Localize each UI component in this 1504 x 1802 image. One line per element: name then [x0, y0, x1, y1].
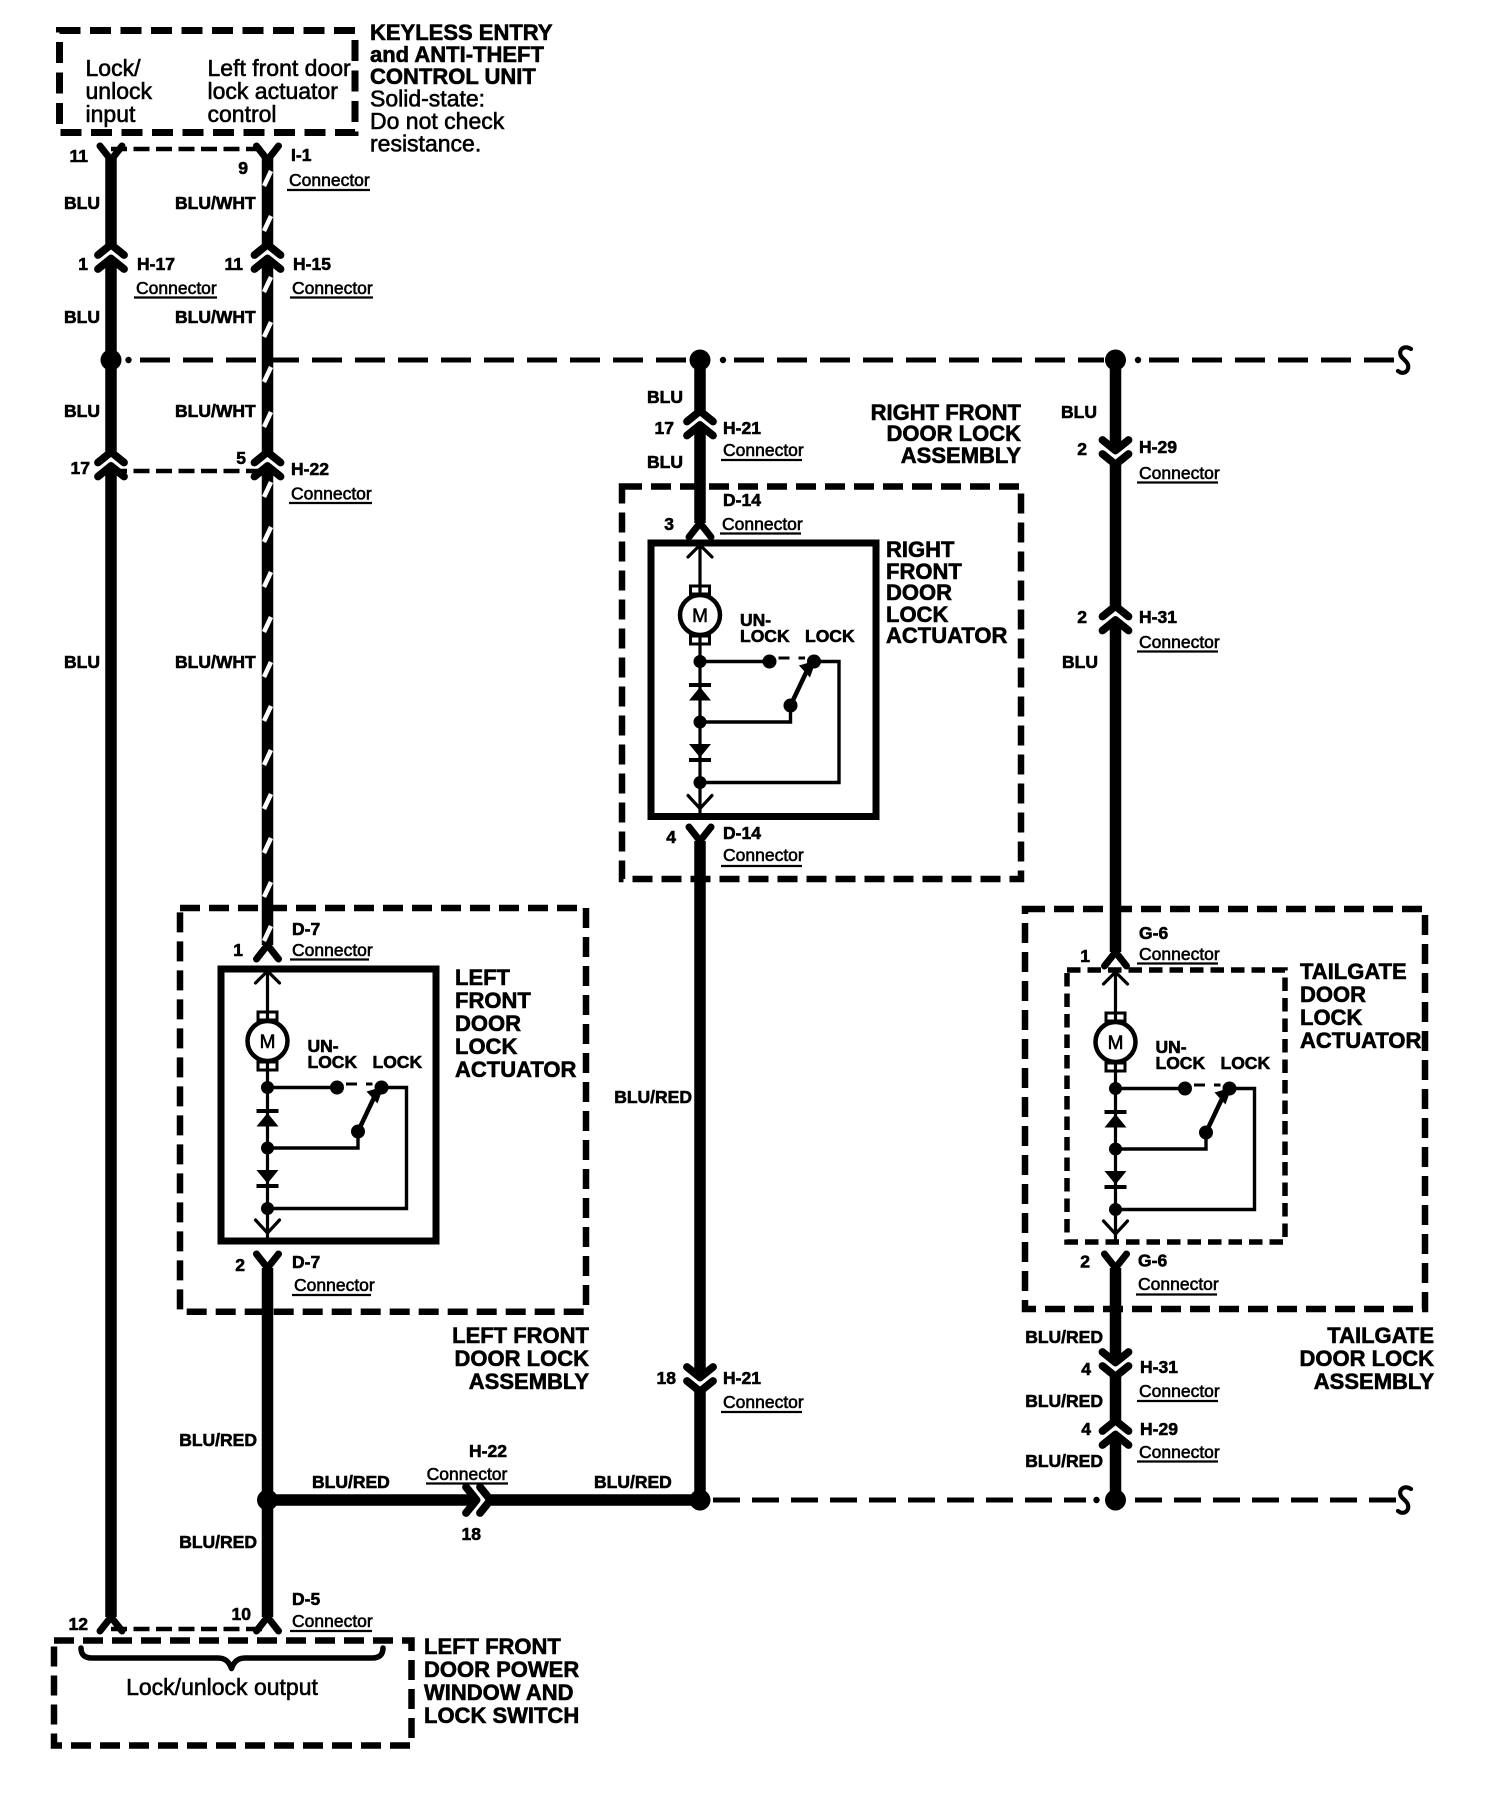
svg-text:Connector: Connector — [723, 440, 804, 460]
LF actuator motor M — [248, 1021, 288, 1061]
connector H-15 — [261, 249, 274, 261]
RF actuator lock-side wire to corner — [700, 662, 839, 783]
svg-text:Connector: Connector — [292, 940, 373, 960]
bottom bus junction at W4 — [1105, 1490, 1126, 1511]
connector G-6 bottom fork — [1105, 1254, 1127, 1268]
svg-text:Connector: Connector — [1138, 1274, 1219, 1294]
svg-text:FRONT: FRONT — [455, 988, 531, 1013]
svg-text:LEFT FRONT: LEFT FRONT — [452, 1323, 589, 1348]
svg-text:DOOR POWER: DOOR POWER — [424, 1657, 579, 1682]
svg-text:17: 17 — [71, 458, 90, 478]
svg-text:BLU: BLU — [647, 452, 683, 472]
svg-text:5: 5 — [236, 448, 246, 468]
svg-text:11: 11 — [225, 254, 244, 274]
wire W1 BLU — [105, 158, 117, 1617]
svg-text:D-7: D-7 — [292, 919, 320, 939]
svg-text:LOCK: LOCK — [1156, 1053, 1206, 1073]
LF actuator switch travel dashes — [346, 1083, 373, 1086]
svg-text:BLU: BLU — [64, 193, 100, 213]
svg-text:BLU: BLU — [1062, 652, 1098, 672]
svg-text:M: M — [692, 606, 708, 627]
LF actuator LOCK contact — [375, 1081, 389, 1095]
svg-text:H-31: H-31 — [1140, 1357, 1178, 1377]
svg-text:H-22: H-22 — [469, 1441, 507, 1461]
svg-text:BLU/RED: BLU/RED — [179, 1430, 257, 1450]
top bus junction at W4 — [1105, 350, 1126, 371]
svg-text:2: 2 — [1077, 607, 1087, 627]
RF actuator bottom junction — [694, 776, 707, 789]
svg-text:H-22: H-22 — [291, 459, 329, 479]
svg-text:2: 2 — [1080, 1252, 1090, 1272]
right front door lock actuator box — [651, 543, 876, 817]
connector G-6 top fork — [1105, 952, 1127, 966]
connector H-29 bottom — [1109, 1425, 1122, 1437]
dashed link at D-5 pins — [111, 1627, 268, 1632]
svg-text:H-17: H-17 — [137, 254, 175, 274]
svg-text:H-29: H-29 — [1140, 1419, 1178, 1439]
LF actuator junction under motor — [261, 1081, 274, 1094]
RF actuator switch travel dashes — [779, 657, 806, 660]
RF actuator pivot return wire — [700, 706, 791, 723]
LF actuator internal vertical wire — [266, 969, 269, 1241]
svg-text:BLU/WHT: BLU/WHT — [175, 401, 256, 421]
LF actuator diode D1 (pointing up) — [257, 1109, 279, 1113]
TG actuator LOCK contact — [1223, 1082, 1237, 1096]
TG actuator switch common wire — [1116, 1087, 1186, 1090]
svg-text:1: 1 — [78, 254, 88, 274]
LF actuator switch arm pivot — [351, 1125, 365, 1139]
RF actuator internal vertical wire — [698, 543, 701, 817]
svg-text:2: 2 — [235, 1255, 245, 1275]
svg-text:LOCK: LOCK — [373, 1052, 423, 1072]
svg-text:ASSEMBLY: ASSEMBLY — [1314, 1369, 1435, 1394]
RF actuator diode D2 (pointing down) — [689, 744, 711, 758]
LF actuator top arrow — [256, 971, 280, 983]
bottom horizontal wire BLU/RED — [268, 1494, 701, 1506]
svg-text:H-29: H-29 — [1139, 437, 1177, 457]
svg-text:H-31: H-31 — [1139, 607, 1177, 627]
TG actuator switch arm — [1206, 1096, 1224, 1133]
RF actuator motor M terminals — [691, 586, 710, 594]
svg-text:DOOR: DOOR — [455, 1011, 521, 1036]
svg-text:ACTUATOR: ACTUATOR — [1300, 1028, 1422, 1053]
svg-text:M: M — [1108, 1033, 1124, 1054]
dashed link at H-22 — [111, 469, 268, 474]
wire W3 upper BLU — [694, 360, 706, 523]
bottom junction at W5 — [257, 1490, 278, 1511]
svg-text:DOOR LOCK: DOOR LOCK — [1300, 1346, 1435, 1371]
svg-text:BLU: BLU — [64, 307, 100, 327]
svg-text:12: 12 — [69, 1614, 89, 1634]
TG actuator diode D2 (pointing down) — [1105, 1171, 1127, 1185]
svg-text:D-5: D-5 — [292, 1589, 320, 1609]
svg-text:G-6: G-6 — [1138, 1251, 1167, 1271]
svg-text:BLU/RED: BLU/RED — [1025, 1451, 1103, 1471]
connector D-14 top fork — [689, 523, 711, 537]
svg-text:Connector: Connector — [427, 1464, 508, 1484]
RF actuator UN-LOCK contact — [763, 655, 777, 669]
svg-text:BLU/RED: BLU/RED — [312, 1472, 390, 1492]
svg-text:M: M — [260, 1032, 276, 1053]
bottom bus junction at W3 — [690, 1490, 711, 1511]
svg-text:18: 18 — [462, 1524, 482, 1544]
svg-text:3: 3 — [664, 514, 674, 534]
connector D-14 bottom fork — [689, 827, 711, 841]
svg-text:Connector: Connector — [723, 1392, 804, 1412]
svg-text:input: input — [86, 101, 136, 127]
svg-text:Connector: Connector — [292, 1611, 373, 1631]
svg-text:LOCK: LOCK — [1300, 1005, 1362, 1030]
svg-text:BLU/WHT: BLU/WHT — [175, 193, 256, 213]
svg-text:LOCK: LOCK — [805, 626, 855, 646]
wire W4 upper BLU — [1110, 360, 1122, 952]
TG actuator pivot return wire — [1116, 1133, 1207, 1150]
svg-text:ASSEMBLY: ASSEMBLY — [469, 1369, 590, 1394]
bottom bus continuation squiggle — [1398, 1487, 1411, 1512]
svg-text:LOCK: LOCK — [740, 626, 790, 646]
connector D-7 bottom fork — [257, 1254, 279, 1268]
right front door lock assembly dashed box — [622, 487, 1021, 880]
top bus continuation squiggle — [1398, 347, 1411, 372]
bottom bus dashed wire — [713, 1498, 1086, 1503]
svg-text:BLU: BLU — [64, 401, 100, 421]
top bus junction at W1 — [101, 350, 122, 371]
RF actuator LOCK contact — [807, 655, 821, 669]
svg-text:Lock/unlock output: Lock/unlock output — [126, 1674, 318, 1700]
svg-text:TAILGATE: TAILGATE — [1327, 1323, 1434, 1348]
svg-text:Connector: Connector — [136, 278, 217, 298]
LF actuator pivot return wire — [268, 1132, 359, 1149]
lock/unlock output brace — [81, 1648, 383, 1669]
LF actuator switch common wire — [268, 1086, 338, 1089]
dashed link at unit pins — [111, 147, 268, 152]
svg-text:18: 18 — [657, 1368, 677, 1388]
svg-text:Connector: Connector — [1139, 1442, 1220, 1462]
RF actuator switch arm pivot — [784, 699, 798, 713]
svg-text:BLU/RED: BLU/RED — [1025, 1327, 1103, 1347]
svg-text:ACTUATOR: ACTUATOR — [455, 1057, 577, 1082]
connector H-21 bottom — [694, 1376, 707, 1388]
svg-text:LEFT: LEFT — [455, 965, 511, 990]
pin 9 fork I-1 — [257, 146, 279, 160]
svg-text:LOCK: LOCK — [455, 1034, 517, 1059]
LF actuator junction at return wire — [261, 1142, 274, 1155]
svg-text:Connector: Connector — [291, 484, 372, 504]
svg-text:D-7: D-7 — [292, 1252, 320, 1272]
svg-text:BLU: BLU — [1061, 402, 1097, 422]
TG actuator junction under motor — [1109, 1082, 1122, 1095]
wire W5 BLU/RED — [262, 1268, 274, 1617]
svg-text:1: 1 — [233, 940, 243, 960]
svg-text:ACTUATOR: ACTUATOR — [886, 623, 1008, 648]
connector H-22 pin 5 — [261, 456, 274, 468]
svg-text:BLU/WHT: BLU/WHT — [175, 652, 256, 672]
svg-text:H-21: H-21 — [723, 1368, 761, 1388]
RF actuator diode D1 (pointing up) — [689, 683, 711, 687]
TG actuator bottom arrow — [1104, 1221, 1128, 1234]
pin 11 fork — [100, 146, 122, 160]
left front door lock assembly dashed box — [180, 908, 586, 1312]
svg-text:D-14: D-14 — [723, 490, 761, 510]
svg-text:BLU/RED: BLU/RED — [179, 1532, 257, 1552]
svg-text:TAILGATE: TAILGATE — [1300, 959, 1407, 984]
RF actuator bottom arrow — [688, 796, 712, 809]
wire W4 lower BLU/RED — [1110, 1268, 1122, 1500]
svg-text:10: 10 — [232, 1604, 252, 1624]
svg-text:Connector: Connector — [1139, 1381, 1220, 1401]
svg-text:LOCK: LOCK — [1221, 1053, 1271, 1073]
svg-text:H-15: H-15 — [293, 254, 331, 274]
svg-text:ASSEMBLY: ASSEMBLY — [901, 443, 1022, 468]
LF actuator bottom arrow — [256, 1220, 280, 1233]
svg-text:Connector: Connector — [1139, 944, 1220, 964]
RF actuator junction under motor — [694, 655, 707, 668]
LF actuator diode D2 (pointing down) — [257, 1170, 279, 1184]
svg-text:resistance.: resistance. — [370, 131, 481, 157]
connector H-17 — [105, 249, 118, 261]
connector D-7 top fork — [257, 945, 279, 959]
svg-text:LOCK SWITCH: LOCK SWITCH — [424, 1703, 579, 1728]
TG actuator switch travel dashes — [1194, 1084, 1221, 1087]
TG actuator top arrow — [1104, 972, 1128, 984]
connector H-22 pin 17 — [105, 456, 118, 468]
wire W3 lower BLU/RED — [694, 841, 706, 1500]
TG actuator diode D1 (pointing up) — [1105, 1110, 1127, 1114]
LF actuator motor M terminals — [258, 1012, 277, 1020]
TG actuator lock-side wire to corner — [1116, 1089, 1255, 1210]
wire W2 white stripes — [264, 171, 271, 186]
svg-text:4: 4 — [666, 827, 676, 847]
left front door lock actuator box — [221, 969, 436, 1241]
svg-text:4: 4 — [1081, 1359, 1091, 1379]
svg-text:Connector: Connector — [289, 170, 370, 190]
svg-text:Connector: Connector — [1139, 463, 1220, 483]
svg-text:11: 11 — [70, 146, 89, 166]
svg-text:BLU/RED: BLU/RED — [614, 1087, 692, 1107]
svg-text:DOOR LOCK: DOOR LOCK — [455, 1346, 590, 1371]
tailgate door lock actuator dashed box — [1067, 970, 1285, 1242]
svg-text:LOCK: LOCK — [308, 1052, 358, 1072]
TG actuator bottom junction — [1109, 1203, 1122, 1216]
svg-text:2: 2 — [1077, 439, 1087, 459]
svg-text:BLU/RED: BLU/RED — [594, 1472, 672, 1492]
LF actuator UN-LOCK contact — [330, 1081, 344, 1095]
RF actuator switch common wire — [700, 660, 770, 663]
svg-text:4: 4 — [1081, 1419, 1091, 1439]
svg-text:17: 17 — [655, 418, 674, 438]
TG actuator motor M — [1096, 1022, 1136, 1062]
connector D-5 pin 10 fork — [257, 1617, 279, 1631]
svg-text:1: 1 — [1080, 946, 1090, 966]
top bus dashed wire — [125, 357, 131, 363]
svg-text:WINDOW AND: WINDOW AND — [424, 1680, 574, 1705]
keyless entry control unit box — [60, 31, 356, 133]
connector H-31 top — [1109, 610, 1122, 622]
tailgate door lock assembly dashed box — [1025, 909, 1425, 1309]
svg-text:Connector: Connector — [292, 278, 373, 298]
svg-text:DOOR: DOOR — [1300, 982, 1366, 1007]
connector D-5 pin 12 fork — [100, 1617, 122, 1631]
TG actuator junction at return wire — [1109, 1143, 1122, 1156]
wire W2 BLU/WHT — [262, 158, 274, 945]
LF actuator bottom junction — [261, 1202, 274, 1215]
left front door power window and lock switch box — [54, 1641, 412, 1746]
svg-text:BLU: BLU — [647, 387, 683, 407]
svg-text:Connector: Connector — [722, 514, 803, 534]
RF actuator top arrow — [688, 545, 712, 557]
RF actuator switch arm — [791, 669, 809, 706]
RF actuator motor M — [680, 595, 720, 635]
TG actuator internal vertical wire — [1114, 970, 1117, 1242]
connector H-31 bottom — [1109, 1361, 1122, 1373]
connector H-22 inline horizontal — [475, 1494, 487, 1507]
TG actuator UN-LOCK contact — [1178, 1082, 1192, 1096]
TG actuator switch arm pivot — [1199, 1126, 1213, 1140]
connector H-29 top — [1109, 449, 1122, 461]
svg-text:Connector: Connector — [294, 1275, 375, 1295]
svg-text:D-14: D-14 — [723, 823, 761, 843]
svg-text:BLU/WHT: BLU/WHT — [175, 307, 256, 327]
svg-text:LEFT FRONT: LEFT FRONT — [424, 1634, 561, 1659]
RF actuator junction at return wire — [694, 716, 707, 729]
svg-text:control: control — [208, 101, 277, 127]
svg-text:H-21: H-21 — [723, 418, 761, 438]
TG actuator motor M terminals — [1106, 1013, 1125, 1021]
svg-text:Connector: Connector — [723, 845, 804, 865]
LF actuator switch arm — [358, 1095, 376, 1132]
svg-text:I-1: I-1 — [291, 145, 312, 165]
top bus junction at W3 — [690, 350, 711, 371]
svg-text:Connector: Connector — [1139, 632, 1220, 652]
LF actuator lock-side wire to corner — [268, 1088, 407, 1209]
svg-text:G-6: G-6 — [1139, 923, 1168, 943]
svg-text:9: 9 — [238, 158, 248, 178]
svg-text:BLU/RED: BLU/RED — [1025, 1391, 1103, 1411]
connector H-21 top — [694, 415, 707, 427]
svg-text:BLU: BLU — [64, 652, 100, 672]
